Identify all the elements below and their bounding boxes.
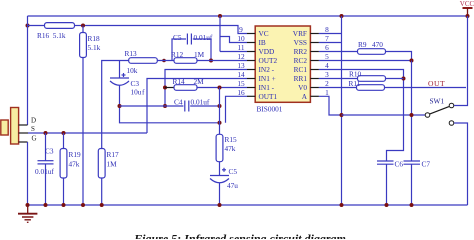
- svg-text:6: 6: [325, 43, 329, 52]
- wire pin11: [220, 51, 247, 53]
- caption Figure 5: [133, 232, 346, 240]
- svg-text:R13: R13: [125, 49, 138, 58]
- node junction feedback at 219.5,124: [218, 121, 222, 125]
- svg-text:R12: R12: [171, 50, 184, 59]
- svg-text:VDD: VDD: [259, 47, 275, 56]
- ground symbol: [18, 205, 37, 222]
- wire OUT line: [385, 87, 467, 89]
- wire IN2- pin13 to R14/C4 left node: [165, 70, 247, 107]
- svg-text:C3: C3: [45, 147, 54, 156]
- wire IN1- pin15: [220, 87, 248, 89]
- node junction rail x341.5: [340, 14, 344, 18]
- svg-text:0.01uf: 0.01uf: [191, 98, 210, 107]
- wire VRF pin8 to VCC rail: [319, 33, 342, 35]
- svg-text:R15: R15: [225, 135, 238, 144]
- node junction rail-left: [26, 24, 30, 28]
- svg-text:A: A: [302, 92, 308, 101]
- svg-text:C5: C5: [229, 167, 238, 176]
- node junction rail x220: [218, 14, 222, 18]
- node junction RC2: [410, 59, 414, 63]
- svg-text:VRF: VRF: [293, 29, 307, 38]
- pin names right column: [293, 29, 308, 101]
- svg-text:VCC: VCC: [460, 0, 474, 8]
- pin stubs right: [310, 34, 319, 97]
- node junction C3b on S line: [44, 131, 48, 135]
- capacitor C7: [404, 160, 431, 206]
- svg-text:C5: C5: [173, 33, 182, 42]
- node junction pole x411.5: [410, 113, 414, 117]
- wire R9 right to RC2 row: [386, 52, 412, 61]
- pin numbers right 8-1: [325, 25, 329, 97]
- svg-text:5.1k: 5.1k: [88, 43, 101, 52]
- svg-text:VC: VC: [259, 29, 269, 38]
- svg-text:IN2 -: IN2 -: [259, 65, 275, 74]
- wire RC2 pin5: [319, 60, 412, 62]
- svg-text:IN1 -: IN1 -: [259, 83, 275, 92]
- svg-text:OUT: OUT: [428, 79, 445, 88]
- node junction R16/R18: [81, 24, 85, 28]
- wire S line: [28, 132, 147, 134]
- svg-text:10u f: 10u f: [131, 88, 146, 97]
- node OUT label: [428, 79, 445, 88]
- wire VDD/IB supply vertical: [219, 16, 221, 52]
- node junction pole/ground column: [340, 113, 344, 117]
- wire OUT1 pin16 loop: [226, 96, 248, 123]
- wire RC1 pin4: [319, 70, 404, 162]
- wire node A row to pin 9: [83, 26, 247, 34]
- svg-text:V0: V0: [298, 83, 307, 92]
- svg-text:R10: R10: [349, 70, 362, 79]
- node junction C4 right: [218, 104, 222, 108]
- resistor R11: [319, 79, 385, 90]
- node junction R12 left: [162, 59, 166, 63]
- wire pin10 jog: [220, 37, 247, 43]
- svg-text:R9 470: R9 470: [358, 40, 383, 49]
- svg-text:VSS: VSS: [294, 38, 307, 47]
- svg-text:C4: C4: [174, 98, 183, 107]
- svg-text:SW1: SW1: [430, 97, 445, 106]
- svg-text:S: S: [31, 125, 35, 133]
- svg-text:R14: R14: [173, 77, 186, 86]
- resistor R13: [125, 49, 175, 75]
- svg-text:RC2: RC2: [294, 56, 308, 65]
- svg-text:2: 2: [325, 79, 329, 88]
- resistor R9: [319, 40, 386, 54]
- svg-text:G: G: [32, 135, 37, 143]
- capacitor C3 0.01uf sensor filter: [35, 133, 54, 205]
- sensor PIR body: [1, 108, 19, 145]
- svg-text:R19: R19: [69, 150, 82, 159]
- wire left vertical VCC drop to sensor D: [27, 16, 29, 125]
- wire column 219.5: [219, 88, 221, 135]
- svg-text:1: 1: [325, 88, 329, 97]
- svg-text:1M: 1M: [107, 160, 118, 169]
- svg-text:47u: 47u: [227, 181, 238, 190]
- sensor pin S: [19, 125, 35, 133]
- svg-text:0.01uf: 0.01uf: [35, 167, 54, 176]
- node junction R14 left: [163, 86, 167, 90]
- resistor R18: [80, 26, 101, 58]
- svg-text:9: 9: [239, 25, 243, 34]
- resistor R17: [98, 149, 119, 206]
- svg-text:0.01uf: 0.01uf: [194, 33, 213, 42]
- svg-text:47k: 47k: [69, 160, 80, 169]
- resistor R14: [165, 77, 220, 90]
- wire pole line: [342, 114, 425, 116]
- wire ground column x411.5: [411, 61, 413, 162]
- svg-text:16: 16: [237, 88, 245, 97]
- resistor R12: [171, 50, 205, 63]
- svg-text:12: 12: [237, 52, 245, 61]
- svg-text:OUT1: OUT1: [259, 92, 278, 101]
- svg-text:7: 7: [325, 34, 329, 43]
- svg-text:10k: 10k: [127, 66, 138, 75]
- wire pin7 stub link: [319, 42, 342, 44]
- svg-text:1M: 1M: [194, 50, 205, 59]
- svg-text:C6: C6: [395, 160, 404, 169]
- svg-text:R18: R18: [88, 34, 101, 43]
- wire VSS pin7 column to ground rail: [341, 16, 343, 205]
- svg-text:R16 5.1k: R16 5.1k: [37, 31, 66, 40]
- svg-text:OUT2: OUT2: [259, 56, 278, 65]
- svg-text:14: 14: [237, 70, 245, 79]
- svg-text:11: 11: [237, 43, 244, 52]
- svg-text:8: 8: [325, 25, 329, 34]
- pin numbers left 9-16: [237, 25, 245, 97]
- wire R18 column down to ground rail: [82, 58, 84, 206]
- svg-text:IN1 +: IN1 +: [259, 74, 276, 83]
- wire VCC top rail: [28, 15, 468, 17]
- resistor R15: [216, 134, 237, 161]
- wire G to ground rail: [27, 142, 29, 205]
- svg-text:R17: R17: [107, 150, 120, 159]
- wire A pin1 to switch pole: [319, 96, 342, 115]
- svg-text:RC1: RC1: [294, 65, 308, 74]
- wire OUT2 row pin12: [197, 60, 247, 62]
- svg-text:3: 3: [325, 70, 329, 79]
- svg-text:IB: IB: [259, 38, 266, 47]
- node junction R10 right: [402, 77, 406, 81]
- switch SW1: [425, 97, 454, 126]
- svg-text:C7: C7: [422, 160, 431, 169]
- node junction rail dots: [26, 203, 414, 207]
- node junction pin15 column top: [218, 86, 222, 90]
- capacitor C5 47u electrolytic: [210, 162, 238, 205]
- pin stubs left: [247, 34, 255, 97]
- resistor R19: [60, 133, 81, 205]
- svg-text:15: 15: [237, 79, 245, 88]
- svg-text:5: 5: [325, 52, 329, 61]
- svg-text:RR1: RR1: [294, 74, 308, 83]
- capacitor C6: [377, 160, 403, 206]
- IC U1 BIS0001 body: [255, 26, 310, 114]
- svg-text:10: 10: [237, 34, 245, 43]
- wire IN1+ pin14 to sensor S line: [147, 79, 247, 134]
- sensor pin G: [19, 135, 37, 143]
- node junction C3 bottom: [118, 104, 122, 108]
- svg-text:Figure 5: Infrared sensing cir: Figure 5: Infrared sensing circuit diagr…: [133, 232, 346, 240]
- capacitor C5 0.01uf: [172, 33, 213, 61]
- sensor pin D: [19, 117, 36, 126]
- wire ground rail: [28, 204, 468, 206]
- node junction C4 left: [163, 104, 167, 108]
- VCC power symbol: [460, 0, 474, 18]
- svg-text:4: 4: [325, 61, 329, 70]
- svg-text:13: 13: [237, 61, 245, 70]
- svg-text:D: D: [31, 117, 36, 125]
- node junction R19 on S line: [62, 131, 66, 135]
- svg-text:RR2: RR2: [294, 47, 308, 56]
- wire R13 left to R17 column: [102, 61, 129, 149]
- node junction C5 right on OUT2 row: [209, 59, 213, 63]
- svg-text:47k: 47k: [225, 144, 236, 153]
- resistor R16: [28, 23, 84, 40]
- svg-text:2M: 2M: [194, 77, 205, 86]
- pin names left column: [259, 29, 278, 101]
- capacitor C4 0.01uf: [120, 98, 220, 112]
- svg-text:BIS0001: BIS0001: [257, 105, 283, 114]
- resistor R10: [319, 70, 404, 82]
- wire SW1 top throw to VCC: [454, 16, 467, 106]
- svg-text:R11: R11: [349, 79, 361, 88]
- wire SW1 bottom throw to ground: [454, 123, 467, 205]
- wire C3 bottom to C4 row and feedback loop: [120, 85, 220, 123]
- capacitor C3 10uf electrolytic: [110, 61, 145, 97]
